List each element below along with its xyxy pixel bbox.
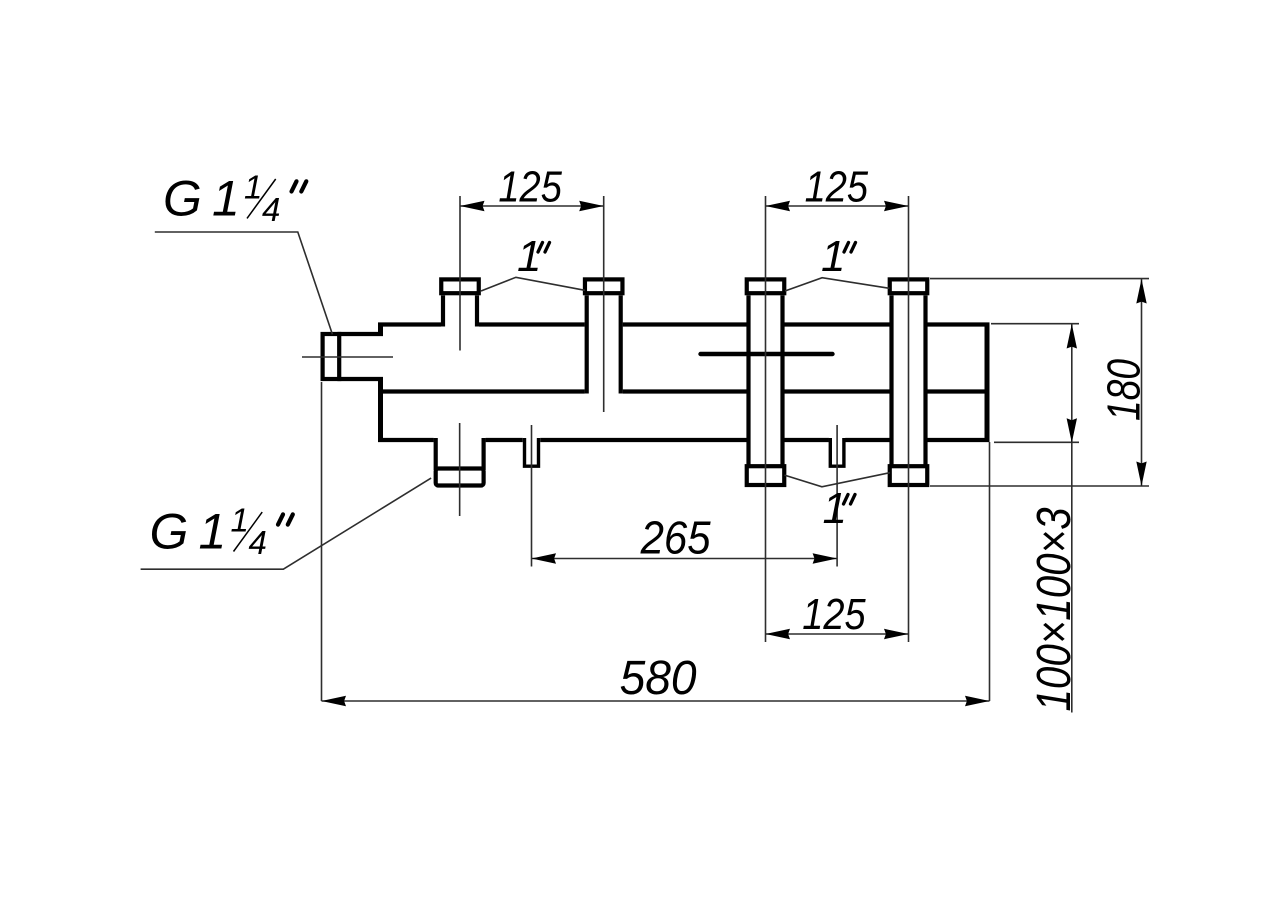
stub1 centre line	[459, 196, 461, 351]
left fitting neck bottom line	[337, 377, 383, 381]
svg-text:1: 1	[517, 232, 541, 281]
small stub2 centre line	[836, 425, 838, 567]
manifold body bottom edge	[378, 438, 434, 442]
arrow 100 top	[1067, 324, 1077, 349]
580 left extension line	[321, 382, 323, 701]
arrow 265 right	[813, 553, 838, 563]
crossing tube 4 bottom cap	[890, 466, 928, 485]
internal baffle line	[701, 352, 833, 356]
arrow 125B right	[884, 629, 909, 639]
arrow 100 bottom	[1067, 418, 1077, 443]
arrow 580 right	[965, 696, 990, 706]
label G 1-1/4 top-left	[163, 169, 306, 229]
dim line 125 bottom	[766, 633, 909, 635]
tube4 walls	[889, 295, 893, 466]
100 bottom extension line	[994, 441, 1079, 443]
svg-text:1: 1	[823, 484, 847, 533]
dim line 100 profile	[1071, 324, 1073, 443]
svg-text:180: 180	[1098, 359, 1150, 421]
svg-text:265: 265	[640, 511, 711, 563]
svg-text:G: G	[163, 171, 202, 227]
arrow 580 left	[322, 696, 347, 706]
stub2 neck walls	[585, 295, 589, 393]
180 bottom extension line	[930, 485, 1149, 487]
svg-text:4: 4	[262, 191, 280, 228]
stub2 centre line	[603, 196, 605, 412]
100x100x3 dim line extension	[1071, 443, 1073, 713]
580 right extension line	[989, 442, 991, 701]
tube3 walls	[746, 295, 750, 466]
leader top G1-1/4 label	[155, 232, 333, 334]
label G 1-1/4 bottom-left	[150, 502, 293, 561]
tube3 centre line	[765, 196, 767, 642]
svg-text:100×100×3: 100×100×3	[1028, 507, 1081, 711]
top stub 1in cap #2	[585, 279, 623, 293]
svg-text:580: 580	[620, 652, 697, 705]
dim line 180	[1141, 279, 1143, 486]
small stub1 centre line	[531, 425, 533, 567]
svg-text:125: 125	[802, 590, 866, 639]
bottom G1-1/4 stub walls	[434, 438, 438, 470]
leader 1in bottom pair	[785, 473, 890, 487]
arrow 125TR left	[766, 201, 791, 211]
svg-text:G: G	[150, 504, 189, 560]
svg-text:1: 1	[199, 504, 227, 560]
leader 1in top-left pair	[481, 277, 585, 291]
arrow 180 bottom	[1136, 462, 1146, 487]
dim line 125 top-left	[460, 205, 604, 207]
arrow 125TL left	[460, 201, 485, 211]
arrow 125TL right	[579, 201, 604, 211]
crossing tube 4 top cap	[890, 279, 928, 293]
left fitting centre line	[302, 356, 393, 358]
left fitting neck top line	[337, 332, 383, 336]
crossing tube 3 bottom cap	[747, 466, 785, 485]
arrow 180 top	[1136, 279, 1146, 304]
bottom stub centre line	[459, 423, 461, 516]
svg-text:125: 125	[498, 163, 562, 212]
leader 1in top-right pair	[785, 278, 889, 291]
bottom G1-1/4 stub cap	[436, 469, 484, 486]
internal line between upper and lower chamber	[378, 389, 585, 393]
crossing tube 3 top cap	[747, 279, 785, 293]
dim line 580	[322, 700, 990, 702]
arrow 265 left	[532, 553, 557, 563]
body left edge upper step	[378, 323, 383, 337]
100 top extension line	[991, 323, 1079, 325]
tube4 centre line	[908, 196, 910, 642]
small stub near x=531	[525, 438, 539, 466]
body right end edge	[985, 323, 990, 443]
leader bottom G1-1/4 label	[141, 478, 432, 569]
body left edge	[378, 377, 383, 442]
stub1 neck walls	[441, 295, 445, 326]
dim line 125 top-right	[766, 205, 909, 207]
svg-text:4: 4	[249, 524, 267, 561]
arrow 125TR right	[884, 201, 909, 211]
manifold body top edge	[378, 322, 441, 326]
180 top extension line	[930, 278, 1149, 280]
arrow 125B left	[766, 629, 791, 639]
small stub near x=837	[830, 438, 844, 466]
top stub 1in cap #1	[441, 279, 479, 293]
svg-text:1: 1	[212, 171, 240, 227]
svg-text:1: 1	[821, 232, 845, 281]
dim line 265	[532, 558, 838, 560]
svg-text:125: 125	[805, 163, 869, 212]
left inlet spigot cap G1-1/4	[323, 334, 340, 379]
